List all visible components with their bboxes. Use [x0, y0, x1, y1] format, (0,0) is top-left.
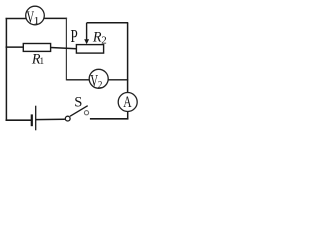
wire ammeter bottom stub: [127, 111, 129, 119]
battery long plate: [35, 106, 37, 131]
wire V2 to right rail: [108, 79, 128, 81]
wire V1 to middle rail: [44, 17, 67, 19]
battery short plate: [31, 114, 33, 126]
voltmeter V1: [26, 6, 45, 27]
switch lever: [70, 106, 88, 117]
wire mid rail to V2: [66, 79, 89, 81]
svg-text:P: P: [71, 27, 78, 46]
wiper arrow of R2: [84, 23, 89, 44]
svg-text:2: 2: [98, 81, 103, 92]
wire left rail to R1: [6, 46, 24, 48]
ammeter A: [118, 93, 137, 112]
svg-text:2: 2: [101, 35, 107, 47]
label R1: [31, 51, 45, 68]
svg-text:S: S: [74, 95, 82, 111]
resistor R1: [23, 44, 50, 52]
wire battery to switch: [36, 118, 65, 120]
svg-text:A: A: [123, 94, 131, 111]
svg-text:1: 1: [34, 16, 40, 27]
wire top from wiper to right rail: [87, 22, 129, 24]
switch left contact: [65, 116, 70, 121]
wire bottom right: [90, 118, 128, 120]
wire R1 to R2: [51, 48, 77, 49]
switch right contact: [84, 111, 88, 115]
label R2: [92, 29, 107, 47]
wire right rail upper: [127, 23, 129, 93]
svg-text:1: 1: [40, 56, 45, 66]
wire left rail: [5, 18, 7, 121]
wire middle vertical rail: [65, 18, 67, 81]
voltmeter V2: [89, 69, 108, 91]
svg-text:R: R: [92, 29, 102, 46]
wire bottom left: [6, 119, 32, 121]
potentiometer R2: [76, 45, 103, 54]
label P: [71, 27, 78, 46]
wire top-left to V1: [6, 18, 27, 20]
label S: [74, 95, 82, 111]
